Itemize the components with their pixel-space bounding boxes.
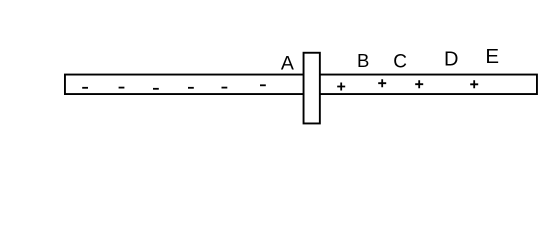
svg-text:C: C (393, 52, 407, 73)
svg-text:E: E (485, 45, 499, 68)
svg-text:B: B (357, 50, 369, 71)
svg-text:D: D (444, 49, 458, 71)
svg-text:A: A (281, 53, 294, 75)
